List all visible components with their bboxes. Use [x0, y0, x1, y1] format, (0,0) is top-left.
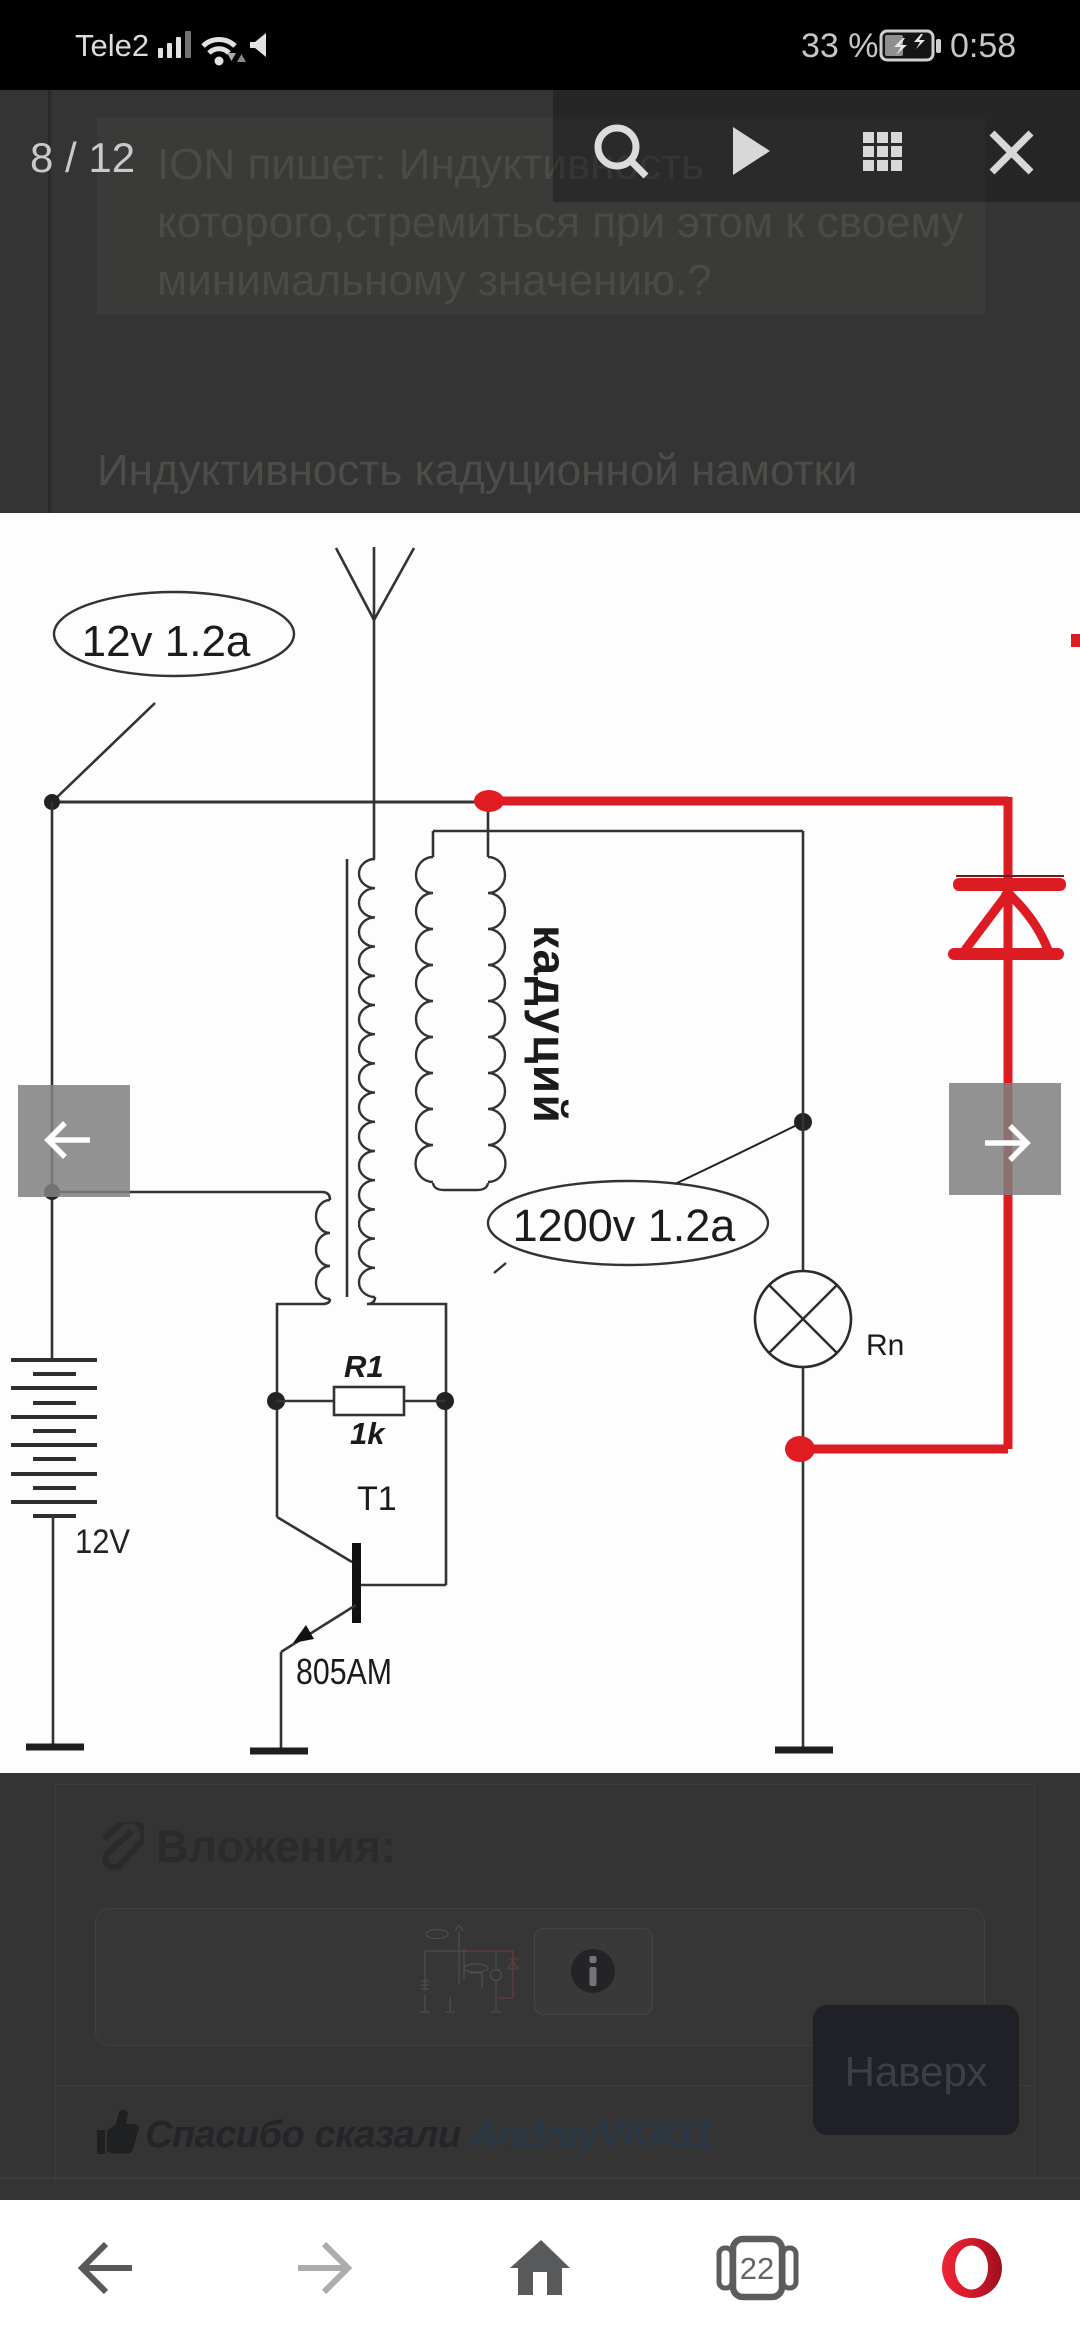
attachments heading — [156, 1821, 396, 1873]
white nav bar — [0, 2200, 1080, 2340]
callout tail — [494, 1263, 506, 1273]
red top wire — [489, 797, 1008, 806]
lamp branch wire — [802, 831, 805, 1271]
svg-text:R1: R1 — [344, 1349, 384, 1384]
caption under quote — [97, 446, 858, 496]
switch lever wire — [52, 703, 155, 802]
node feedback tap — [44, 1184, 60, 1200]
callout ellipse 1200v 1.2a — [488, 1181, 768, 1265]
left rail wire — [51, 802, 54, 1360]
diode VD1 triangle — [1001, 889, 1015, 903]
viewer prev button — [18, 1085, 130, 1197]
battery 12V — [11, 1360, 97, 1516]
search icon — [598, 128, 646, 176]
node top-left — [44, 794, 60, 810]
wire to feedback winding — [52, 1192, 330, 1200]
transformer core — [346, 859, 349, 1297]
antenna — [336, 547, 414, 859]
white schematic canvas — [0, 513, 1080, 1773]
ground battery — [26, 1744, 84, 1751]
secondary top-right riser to red node — [487, 805, 490, 857]
thumbs up icon — [95, 2110, 139, 2158]
back arrow — [82, 2244, 132, 2292]
dark viewer top section texts — [0, 90, 1080, 513]
quote panel — [97, 117, 985, 315]
thanks row text — [145, 2114, 712, 2157]
go to top button — [813, 2005, 1019, 2135]
bottom dark section — [0, 1773, 1080, 2200]
wire primary bottom — [367, 1297, 446, 1585]
home icon — [510, 2240, 570, 2295]
transistor T1 — [352, 1543, 361, 1623]
node R1 left — [267, 1392, 285, 1410]
signal bars — [158, 31, 191, 58]
ground emitter — [250, 1748, 308, 1755]
ground lamp — [775, 1747, 833, 1754]
svg-text:12V: 12V — [75, 1523, 130, 1561]
diode cathode bar — [956, 875, 1064, 877]
quote text — [157, 136, 963, 310]
red bottom wire — [808, 1445, 1008, 1454]
resistor R1 — [276, 1400, 334, 1402]
toolbar overlay — [553, 90, 1080, 202]
wire secondary bottom to lamp node — [675, 1122, 803, 1184]
svg-text:Tele2: Tele2 — [75, 28, 149, 63]
attachment info button — [534, 1928, 653, 2015]
play icon — [733, 127, 770, 175]
lamp Rn — [755, 1271, 851, 1367]
wire feedback bottom — [277, 1299, 330, 1517]
close icon — [992, 133, 1031, 172]
red wire to diode — [1004, 797, 1013, 1449]
paperclip icon — [96, 1822, 144, 1876]
wire secondary to lamp branch — [433, 830, 803, 833]
lamp bottom wire — [802, 1367, 805, 1748]
attachments box — [95, 1908, 985, 2046]
post panel borders — [55, 1784, 1035, 1785]
bottom separator — [0, 2177, 1080, 2179]
svg-text:33 %: 33 % — [801, 27, 879, 65]
red edge mark — [1071, 634, 1080, 647]
speaker — [250, 33, 266, 57]
callout ellipse 12v 1.2a — [54, 592, 294, 676]
secondary winding right column — [488, 857, 505, 1182]
svg-text:T1: T1 — [357, 1480, 397, 1518]
feedback winding L3 — [316, 1200, 330, 1299]
emitter wire — [280, 1652, 283, 1748]
secondary top-left riser — [432, 831, 435, 857]
node lamp branch — [794, 1113, 812, 1131]
red node bottom — [785, 1436, 815, 1462]
secondary winding left column — [416, 857, 433, 1182]
wifi — [203, 40, 235, 53]
primary winding L1 — [359, 859, 375, 1297]
left panel border — [48, 90, 51, 513]
secondary bottom closure — [433, 1183, 488, 1190]
tabs icon 22 — [719, 2239, 796, 2297]
forward arrow — [298, 2244, 348, 2292]
svg-text:805AM: 805AM — [296, 1651, 392, 1692]
grid icon — [863, 132, 902, 171]
red node left — [474, 790, 504, 812]
status bar — [0, 0, 1080, 90]
svg-text:12v 1.2a: 12v 1.2a — [82, 617, 251, 666]
attachment thumbnail mini schematic — [420, 1923, 526, 2019]
node R1 right — [436, 1392, 454, 1410]
svg-text:кадуций: кадуций — [524, 925, 576, 1124]
battery bottom wire — [52, 1516, 55, 1744]
viewer next button — [949, 1083, 1061, 1195]
svg-text:Rn: Rn — [866, 1329, 904, 1362]
separator above thanks row — [55, 2085, 1035, 2086]
svg-text:22: 22 — [740, 2251, 774, 2286]
page counter — [30, 134, 135, 182]
top bus wire — [52, 801, 489, 804]
svg-text:0:58: 0:58 — [950, 27, 1016, 65]
svg-text:1200v 1.2a: 1200v 1.2a — [513, 1200, 737, 1251]
svg-text:1k: 1k — [350, 1416, 386, 1451]
